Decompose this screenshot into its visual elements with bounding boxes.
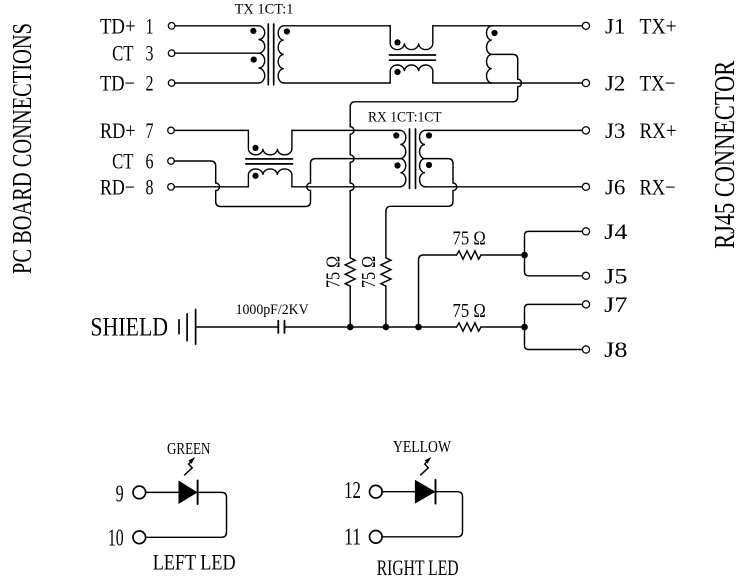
svg-text:CT: CT [112,149,134,174]
pin 12 terminal circle [370,485,383,498]
wire T2 secondary bottom to J6 [425,186,582,188]
transformer T1 TX secondary winding [278,26,284,83]
choke L1 top dot [394,39,400,45]
transformer T1 primary polarity dot bottom [251,57,257,63]
wire R4 to J7 J8 junction [481,326,525,328]
wire junction to J7 [525,304,583,327]
T2 primary dot top [393,132,399,138]
LED D1 green diode triangle [179,481,198,505]
node junction dot R1 rail [347,324,354,331]
svg-text:TX 1CT:1: TX 1CT:1 [235,1,294,17]
svg-text:YELLOW: YELLOW [393,437,452,456]
autotransformer coil L3 [486,26,491,83]
wire D2 to pin11 [382,492,462,537]
node junction dot branch rail [415,324,422,331]
pin 11 terminal circle [370,531,383,544]
resistor R3 75 ohm horizontal [457,251,481,259]
wire choke L2 to T2 primary bottom [292,186,400,188]
transformer T2 core [410,129,416,188]
T2 primary dot bottom [394,162,400,168]
svg-text:75 Ω: 75 Ω [323,256,345,288]
terminal J6 circle [582,183,589,190]
choke L1 bottom winding [390,65,433,83]
svg-text:TD−: TD− [100,71,135,96]
transformer T2 RX secondary winding [419,130,425,186]
T2 secondary dot top [426,132,432,138]
pin 10 terminal circle [133,531,146,544]
svg-text:1: 1 [146,13,154,38]
wire pin12 to LED D2 [382,491,415,493]
svg-text:J8: J8 [604,337,627,362]
choke L2 core [246,159,293,164]
capacitor C1 plates [278,321,284,333]
transformer T1 primary polarity dot top [250,28,256,34]
pin 3 terminal circle [168,50,175,57]
wire T1 secondary bottom to choke L1 [284,82,390,84]
choke L2 bottom dot [252,173,258,179]
svg-text:LEFT LED: LEFT LED [153,549,236,574]
transformer T1 TX primary winding [259,26,265,83]
svg-text:12: 12 [344,478,361,504]
svg-text:J5: J5 [604,263,627,288]
svg-text:TD+: TD+ [100,13,136,38]
wire pin1 to T1 primary [175,25,259,27]
transformer T1 secondary polarity dot [284,28,290,34]
pin 8 terminal circle [168,184,175,191]
node junction dot J4 J5 [521,252,528,259]
svg-text:J3RX+: J3RX+ [605,118,677,143]
wire T2 secondary top to J3 [425,129,582,131]
svg-text:PC BOARD CONNECTIONS: PC BOARD CONNECTIONS [7,23,37,274]
choke L1 core [390,55,436,60]
svg-text:J4: J4 [604,219,627,244]
svg-text:75 Ω: 75 Ω [358,256,380,288]
choke L2 bottom winding [248,169,292,187]
choke L1 top winding [390,26,433,50]
svg-text:7: 7 [146,118,154,143]
wire choke L2 to T2 primary top [292,129,400,131]
shield chassis symbol [179,310,196,345]
svg-text:10: 10 [108,525,124,551]
wire pin2 to T1 primary [175,82,259,84]
pin 7 terminal circle [168,127,175,134]
wire coil L3 center tap down with hop over J2 wire [350,54,521,257]
terminal J7 circle [582,301,589,308]
wire D1 to pin10 [146,492,227,537]
resistor R2 75 ohm vertical [381,258,391,286]
choke L1 bottom dot [394,69,400,75]
svg-text:GREEN: GREEN [167,439,210,458]
T2 secondary dot bottom [426,162,432,168]
wire R3 to J4 J5 junction [481,254,525,256]
wire junction to J5 [525,255,583,276]
LED D2 yellow diode triangle [415,480,436,504]
svg-text:3: 3 [146,41,154,66]
wire pin6 jog down to lower run [174,159,400,207]
wire choke L1 to J1 [433,25,583,27]
wire branch up to R3 [419,255,457,327]
wire junction to J8 [525,327,583,350]
pin 9 terminal circle [133,486,146,499]
terminal J3 circle [582,127,589,134]
svg-text:75 Ω: 75 Ω [453,300,486,322]
LED D1 cathode bar [197,481,199,505]
wire C1 to rail junctions [285,326,457,328]
wire T2 secondary center tap down with hop [386,159,457,258]
svg-text:CT: CT [112,41,134,66]
svg-text:J2TX−: J2TX− [605,71,676,96]
svg-text:75 Ω: 75 Ω [453,228,486,250]
transformer T2 RX primary winding [400,130,406,186]
pin 2 terminal circle [168,80,175,87]
terminal J5 circle [582,272,589,279]
wire junction to J4 [525,231,583,255]
choke L2 top dot [252,145,258,151]
pin 1 terminal circle [168,23,175,30]
svg-text:11: 11 [344,524,361,550]
wire T1 secondary top to choke L1 [284,25,390,27]
svg-text:9: 9 [116,482,124,508]
wire pin3 to T1 center tap [175,52,259,54]
terminal J1 circle [582,22,589,29]
wire R2 to rail [385,286,387,327]
node junction dot J7 J8 [521,324,528,331]
svg-text:J6RX−: J6RX− [605,174,676,199]
wire R1 to rail [349,286,351,327]
svg-text:RD+: RD+ [100,118,136,143]
svg-text:RD−: RD− [100,174,135,199]
yellow LED arrow bolt [421,458,431,475]
transformer T1 core [268,24,273,85]
svg-text:6: 6 [146,149,154,174]
wire shield to capacitor C1 [196,326,279,328]
svg-text:RJ45 CONNECTOR: RJ45 CONNECTOR [709,60,741,248]
resistor R4 75 ohm horizontal [457,323,481,331]
svg-text:RX 1CT:1CT: RX 1CT:1CT [368,110,442,126]
svg-text:1000pF/2KV: 1000pF/2KV [236,302,309,318]
svg-text:SHIELD: SHIELD [90,312,168,341]
svg-text:J1TX+: J1TX+ [605,13,677,38]
wire pin7 to choke L2 [174,129,248,131]
svg-text:8: 8 [146,174,154,199]
resistor R1 75 ohm vertical [345,258,355,286]
coil L3 polarity dot [491,30,497,36]
pin 6 terminal circle [168,158,175,165]
svg-text:2: 2 [146,71,154,96]
svg-text:RIGHT LED: RIGHT LED [377,555,459,579]
terminal J2 circle [582,79,589,86]
node junction dot R2 rail [383,324,390,331]
terminal J8 circle [582,346,589,353]
terminal J4 circle [582,228,589,235]
wire choke L1 to J2 [433,82,583,84]
green LED arrow bolt [185,458,195,475]
wire pin8 to choke L2 [174,186,248,188]
wire pin9 to LED D1 [146,491,179,493]
svg-text:J7: J7 [604,292,627,317]
choke L2 top winding [248,130,292,154]
LED D2 cathode bar [435,480,437,504]
